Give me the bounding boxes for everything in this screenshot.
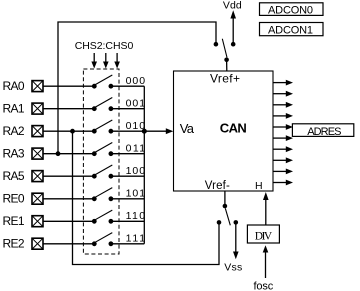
wire Va arrow into CAN [144,128,173,134]
wire RA5 to mux [43,175,94,177]
wire CHS2 select arrow [91,53,97,69]
svg-text:ADCON1: ADCON1 [268,25,313,37]
pin RA1 [3,102,44,116]
wire channel 111 to bus [111,243,144,245]
svg-text:CAN: CAN [220,121,247,136]
output arrow bit 3 [273,113,293,119]
svg-text:Vdd: Vdd [223,0,242,11]
svg-text:Vss: Vss [224,261,242,273]
wire channel 011 to bus [111,153,144,155]
wire Vref- rail from RA2 node to Vss switch [73,131,220,264]
switch Vref+ select [214,39,236,62]
register ADCON1 [260,23,324,37]
power Vdd [223,0,242,42]
svg-text:RA2: RA2 [3,124,25,138]
svg-text:011: 011 [126,142,146,154]
svg-text:Va: Va [180,121,195,136]
wire RE1 to mux [43,220,94,222]
svg-text:H: H [255,180,263,192]
wire RA2 to mux [43,130,94,132]
svg-text:101: 101 [126,187,146,199]
pin RA2 [3,124,44,138]
pin RE1 [3,214,44,228]
wire CAN to Vref- switch [224,191,226,206]
output arrow bit 9 [273,180,293,186]
converter U1 CAN box [174,71,274,191]
pin RA0 [3,79,44,93]
svg-text:110: 110 [126,210,146,222]
output arrow bit 2 [273,102,293,108]
wire DIV to CAN clock arrow [263,192,269,225]
svg-text:fosc: fosc [254,280,274,291]
svg-text:000: 000 [126,75,146,87]
wire channel 100 to bus [111,175,144,177]
multiplexer dashed box [83,69,119,254]
svg-text:100: 100 [126,165,146,177]
switch channel 000 [92,75,113,89]
svg-text:ADCON0: ADCON0 [268,4,313,16]
svg-text:RE2: RE2 [3,237,25,251]
svg-text:ADRES: ADRES [307,126,341,138]
svg-text:RA1: RA1 [3,102,25,116]
wire CHS1 select arrow [103,53,109,69]
node RA3 Vref+ junction [56,151,61,156]
output arrow bit 6 [273,146,293,152]
pin RE0 [3,192,44,206]
wire channel 010 to bus [111,130,144,132]
svg-text:RA5: RA5 [3,169,25,183]
svg-text:001: 001 [126,97,146,109]
divider DIV box [247,225,279,243]
output arrow bit 8 [273,169,293,175]
power Vss [224,222,242,273]
output arrow bit 0 [273,80,293,86]
switch channel 101 [92,188,113,202]
wire Vref+ switch to CAN [226,60,228,71]
node RA2 Vref- junction [70,129,75,134]
register ADRES [292,124,353,138]
svg-text:RA3: RA3 [3,147,25,161]
wire channel 000 to bus [111,85,144,87]
svg-text:CHS2:CHS0: CHS2:CHS0 [75,40,134,52]
wire RA0 to mux [43,85,94,87]
node Va junction [142,129,147,134]
switch channel 110 [92,210,113,224]
svg-text:111: 111 [126,232,146,244]
wire channel 101 to bus [111,198,144,200]
wire CHS0 select arrow [114,53,120,69]
wire fosc to DIV arrow [263,245,269,278]
wire channel 001 to bus [111,108,144,110]
switch channel 001 [92,98,113,112]
wire RA1 to mux [43,108,94,110]
output arrow bit 4 [273,124,293,130]
svg-text:RE1: RE1 [3,214,25,228]
output arrow bit 1 [273,91,293,97]
wire RA3 to mux [43,153,94,155]
switch Vref- select [217,204,238,226]
switch channel 100 [92,165,113,179]
wire channel 110 to bus [111,220,144,222]
pin RA5 [3,169,44,183]
wire RE2 to mux [43,243,94,245]
svg-text:Vref-: Vref- [205,180,230,192]
svg-text:DIV: DIV [255,230,273,242]
switch channel 010 [92,120,113,134]
output arrow bit 5 [273,135,293,141]
register ADCON0 [260,3,324,16]
wire Vref+ rail from RA3 node to Vdd switch [58,22,216,154]
pin RA3 [3,147,44,161]
pin RE2 [3,237,44,251]
switch channel 111 [92,233,113,247]
wire RE0 to mux [43,198,94,200]
switch channel 011 [92,143,113,157]
output arrow bit 7 [273,157,293,163]
svg-text:RA0: RA0 [3,79,25,93]
wire analog bus [143,86,145,244]
svg-text:Vref+: Vref+ [210,72,240,86]
svg-text:RE0: RE0 [3,192,25,206]
